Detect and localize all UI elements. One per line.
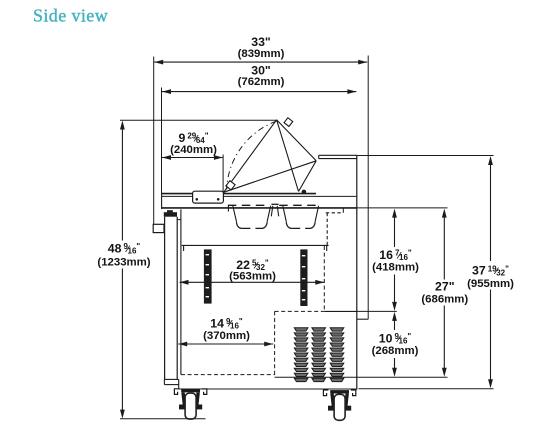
dimension 30" line (162, 89, 356, 94)
right pilaster rail (300, 249, 307, 306)
dimension 16-7/16" line (392, 209, 397, 311)
dimension 48-9/16" line (120, 121, 125, 419)
svg-text:Side view: Side view (33, 6, 108, 26)
right cabinet wall (356, 155, 358, 389)
hinge pivot dot (302, 190, 307, 195)
svg-text:(563mm): (563mm) (229, 271, 276, 283)
rear ledge (299, 155, 357, 191)
right food pan (279, 205, 319, 228)
svg-text:167⁄16": 167⁄16" (379, 248, 412, 262)
dimension 22-5/32" line (180, 280, 325, 285)
dimension 37-19/32" line (488, 156, 493, 388)
lid apex knob (284, 118, 293, 127)
lid swing arc (227, 121, 277, 189)
evaporator hood right wall (326, 213, 328, 246)
svg-text:(1233mm): (1233mm) (97, 256, 150, 268)
rear notch (357, 318, 368, 320)
interior shelf line (182, 245, 329, 251)
dimension 14-9/16" line (178, 342, 273, 347)
left food pan (228, 205, 271, 228)
lid handle knob (226, 181, 235, 190)
svg-text:109⁄16": 109⁄16" (379, 331, 412, 345)
interior liner wall (180, 209, 182, 374)
condenser compartment left wall (274, 311, 276, 377)
dimension 33" line (154, 60, 367, 65)
extension line ledge top (357, 155, 494, 157)
dimension 10-9/16" line (392, 312, 397, 377)
dimension 9-29/64" extension (222, 155, 224, 193)
condenser compartment top (275, 310, 357, 312)
left pilaster rail (204, 249, 212, 303)
door hinge (164, 210, 177, 217)
cabinet bottom right (179, 388, 357, 390)
svg-text:33": 33" (251, 35, 271, 49)
svg-text:149⁄16": 149⁄16" (210, 316, 243, 330)
svg-text:(839mm): (839mm) (238, 48, 285, 60)
svg-text:(955mm): (955mm) (467, 278, 514, 290)
thermostat bracket (153, 224, 164, 232)
svg-text:3719⁄32": 3719⁄32" (472, 264, 509, 278)
worktop slab (162, 194, 357, 210)
svg-text:(418mm): (418mm) (372, 262, 419, 274)
hidden interior bottom (181, 374, 275, 376)
dimension 27" line (442, 209, 447, 377)
cutting-board clip plate (193, 191, 224, 203)
extension line worktop (357, 207, 448, 209)
svg-text:(370mm): (370mm) (203, 330, 250, 342)
dimension 33" extension left (153, 57, 155, 225)
svg-text:(762mm): (762mm) (238, 76, 285, 88)
extension line mid (357, 310, 397, 312)
rear gutter step (326, 208, 344, 213)
right caster (323, 390, 355, 420)
svg-text:489⁄16": 489⁄16" (108, 242, 141, 256)
svg-text:(686mm): (686mm) (421, 294, 468, 306)
left caster (174, 389, 206, 419)
svg-text:27": 27" (435, 280, 455, 294)
svg-text:929⁄64": 929⁄64" (178, 131, 208, 145)
svg-text:(268mm): (268mm) (372, 345, 419, 357)
extension line cabinet bottom (359, 388, 494, 390)
dimension 30" extension left (161, 88, 163, 195)
svg-text:(240mm): (240mm) (170, 144, 217, 156)
front door (165, 217, 181, 380)
cabinet bottom left (164, 379, 178, 389)
pan divider (271, 204, 278, 216)
hidden interior right wall (323, 246, 325, 311)
dimension 48-9/16" bottom extension (floor) (120, 418, 206, 420)
open lid (224, 120, 317, 193)
condenser coil (294, 328, 344, 382)
extension line condenser bottom (275, 376, 448, 378)
dimension 33" extension right (367, 56, 369, 320)
dimension 48-9/16" top extension (120, 119, 277, 121)
dimension 9-29/64" line (162, 155, 223, 160)
